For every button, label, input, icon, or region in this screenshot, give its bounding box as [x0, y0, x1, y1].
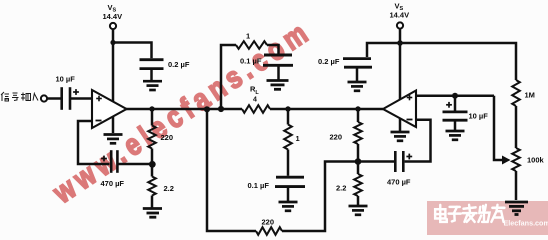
ground G1 (under C1)	[143, 81, 162, 90]
wire bottom loop to node A	[207, 109, 256, 231]
wire C4 to ground	[277, 67, 280, 80]
node D	[355, 106, 360, 111]
svg-text:14.4V: 14.4V	[103, 12, 123, 21]
wire FB2 loop to bottom	[282, 162, 358, 232]
node Vs1 supply terminal	[110, 23, 116, 29]
wire C5 to ground	[287, 188, 290, 201]
ground G6 (under R6)	[349, 206, 368, 215]
capacitor C2 10uF input	[62, 87, 70, 110]
ground G10 (under C7)	[446, 131, 465, 140]
wire supply1 to C1	[113, 43, 152, 59]
wire R5 to node FB2	[357, 144, 360, 162]
label input Chinese 信号输入	[1, 92, 38, 101]
wire U2 ground pin	[399, 118, 402, 131]
node FB2	[355, 158, 362, 165]
resistor R6 2.2	[354, 174, 362, 196]
svg-text:100k: 100k	[527, 156, 545, 165]
wire C1 to ground	[150, 70, 153, 80]
svg-text:470 µF: 470 µF	[101, 179, 125, 188]
ground G8 (under pot)	[505, 202, 528, 215]
wire U1 inverting input feedback	[78, 121, 110, 164]
watermark www.elecfans.com	[47, 14, 319, 211]
banner 电子发烧友 Elecfans.com	[427, 201, 548, 235]
node A	[204, 106, 210, 112]
op-amp U2	[383, 91, 416, 128]
node supply2 junction	[397, 40, 403, 46]
wire supply1 vertical	[112, 30, 115, 102]
svg-text:1M: 1M	[525, 91, 535, 100]
resistor R4 1	[284, 125, 292, 150]
wire node to R1	[151, 109, 154, 126]
node FB1	[149, 161, 156, 168]
capacitor C4 0.1uF	[263, 55, 293, 65]
node Vs2 supply terminal	[397, 22, 403, 28]
svg-text:220: 220	[262, 218, 275, 227]
capacitor C7 10uF	[443, 112, 468, 120]
svg-text:0.2 µF: 0.2 µF	[318, 57, 340, 66]
svg-text:14.4V: 14.4V	[390, 11, 410, 20]
op-amp U1	[92, 90, 127, 128]
resistor RL	[242, 105, 270, 113]
node C	[285, 106, 290, 111]
电	[435, 205, 447, 222]
resistor R3 1	[236, 41, 267, 49]
node input terminal	[41, 95, 47, 101]
wire R1 to node FB1	[151, 149, 154, 165]
wire R3 to C4	[267, 45, 279, 54]
svg-text:10 µF: 10 µF	[56, 75, 76, 84]
wire FB1 to R2	[151, 164, 154, 177]
wire U2 + input	[416, 95, 494, 98]
capacitor C8 470uF feedback 2	[395, 151, 403, 172]
svg-text:0.2 µF: 0.2 µF	[168, 60, 190, 69]
wire RL to node D	[270, 108, 383, 111]
wire pot to ground	[515, 171, 518, 200]
wire R2 to ground	[151, 196, 154, 208]
resistor R5 220	[354, 122, 362, 144]
node + input tap	[452, 93, 458, 99]
node supply1 junction	[110, 40, 115, 45]
svg-text:RL: RL	[250, 85, 259, 97]
svg-text:4: 4	[253, 97, 257, 104]
resistor R1 220	[148, 126, 156, 149]
resistor R8 1M	[512, 80, 520, 106]
potentiometer VR1 100k	[512, 148, 520, 171]
ground G5 (under C5)	[279, 202, 298, 211]
wire FB2 to R6	[357, 162, 360, 175]
友	[491, 205, 504, 222]
wire R8 to pot	[515, 106, 518, 148]
svg-text:1: 1	[246, 32, 250, 41]
ground G3 (under R2)	[143, 209, 162, 218]
ground G2 (op-amp U1)	[104, 135, 123, 144]
svg-text:0.1 µF: 0.1 µF	[240, 57, 262, 66]
capacitor C3 470uF feedback 1	[111, 150, 117, 173]
wire C3 to node FB1	[119, 163, 153, 166]
wire R4 to C5	[287, 150, 290, 176]
pot wiper arrowhead	[502, 156, 511, 165]
烧	[478, 205, 489, 222]
capacitor C1 0.2uF	[140, 60, 164, 69]
wire R6 to ground	[357, 196, 360, 205]
node output U1	[149, 106, 154, 111]
wire pot wiper	[494, 96, 503, 160]
wire U1 ground pin	[112, 117, 115, 133]
wire node D to R5	[357, 109, 360, 122]
svg-text:2.2: 2.2	[164, 184, 174, 193]
wire C6 to ground	[356, 69, 359, 82]
banner text 电子发烧友 (white pseudo-glyphs)	[435, 205, 504, 222]
svg-text:0.1 µF: 0.1 µF	[248, 181, 270, 190]
wire U2 - input to C8	[405, 120, 431, 162]
ground G7 (under C6)	[348, 82, 367, 91]
svg-text:220: 220	[161, 133, 174, 142]
ground G4 (under C4)	[267, 81, 289, 90]
wire node B up to R3 rail	[221, 45, 236, 109]
capacitor C6 0.2uF	[343, 59, 372, 68]
resistor R7 220 bottom	[256, 227, 282, 235]
子	[449, 207, 461, 222]
ground G9 (op-amp U2)	[391, 132, 410, 141]
resistor R2 2.2	[148, 177, 156, 196]
发	[463, 205, 477, 222]
svg-text:2.2: 2.2	[336, 184, 346, 193]
svg-text:1: 1	[296, 134, 300, 143]
svg-text:220: 220	[330, 133, 343, 142]
node B	[218, 106, 224, 112]
wire supply2 to R8	[400, 43, 516, 80]
capacitor C5 0.1uF	[275, 177, 305, 186]
wire input to C2	[47, 97, 60, 100]
wire supply2 to C6	[367, 43, 400, 57]
wire C2 to op-amp	[70, 97, 92, 100]
svg-text:10 µF: 10 µF	[469, 112, 489, 121]
svg-text:470 µF: 470 µF	[387, 178, 411, 187]
wire main output line	[126, 108, 242, 111]
wire C7 to ground	[454, 122, 457, 131]
wire tap to C7	[454, 96, 457, 111]
wire node C to R4	[287, 109, 290, 125]
wire C8 to node FB2	[358, 160, 395, 163]
wire supply2 vertical	[399, 29, 402, 100]
